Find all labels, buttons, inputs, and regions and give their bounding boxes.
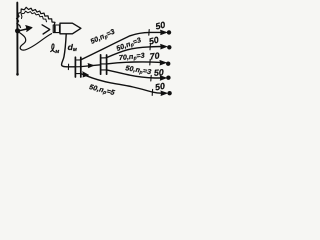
tick T1 <box>148 30 150 36</box>
svg-text:dм: dм <box>68 42 77 53</box>
svg-text:50,пр=5: 50,пр=5 <box>88 83 116 98</box>
tick M2 <box>149 59 151 65</box>
wire main manifold1 to manifold2 <box>81 65 101 67</box>
svg-text:50: 50 <box>154 67 165 78</box>
consumer dot R2 <box>167 45 171 49</box>
svg-text:50: 50 <box>154 20 166 32</box>
wire shaft vertical line <box>16 3 18 75</box>
arrow M2 <box>160 60 167 65</box>
compressor bullet body <box>60 23 81 34</box>
arrow T1 <box>160 30 167 35</box>
label l_m <box>51 44 55 52</box>
svg-text:50: 50 <box>148 35 160 47</box>
cloud swoosh tail <box>20 33 52 50</box>
arrow T2 <box>160 44 167 49</box>
cloud inner scallop echo <box>21 11 46 22</box>
branch T2 wire <box>107 47 162 58</box>
consumer dot R3 <box>166 62 170 66</box>
wire intake arrow <box>20 29 28 31</box>
manifold 1 <box>75 57 80 77</box>
branch T1 wire <box>81 32 162 59</box>
svg-text:70: 70 <box>149 50 160 61</box>
cloud funnel lower arm <box>43 30 50 34</box>
arrow B1 start <box>83 72 89 77</box>
branch B1 wire <box>81 74 162 94</box>
cloud funnel upper arm <box>42 25 50 30</box>
tick T2 <box>149 44 151 50</box>
arrow B2 <box>160 76 167 81</box>
cloud scalloped outline <box>17 7 56 27</box>
branch M2 wire <box>107 62 161 64</box>
consumer dot R4 <box>166 76 170 80</box>
node junction dot <box>15 28 20 33</box>
svg-text:50: 50 <box>154 81 165 93</box>
consumer dot R5 <box>167 91 171 95</box>
manifold 2 <box>101 55 107 74</box>
tick B1 <box>151 89 153 95</box>
ink blob at line end <box>16 73 19 76</box>
wire drop from bullet to main <box>62 34 76 67</box>
branch B2 wire <box>107 70 161 78</box>
arrow B1 end <box>161 91 168 96</box>
svg-text:м: м <box>55 49 59 55</box>
compressor inlet square <box>53 25 59 33</box>
tick B2 <box>150 75 152 81</box>
tick on main <box>67 64 69 69</box>
consumer dot R1 <box>167 30 171 34</box>
